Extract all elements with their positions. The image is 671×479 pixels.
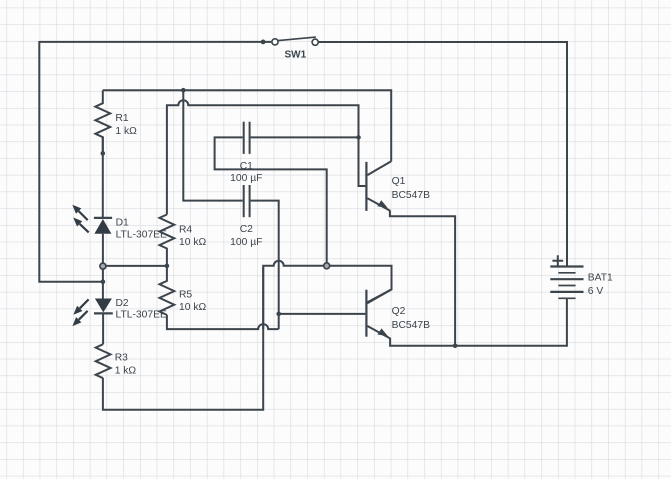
node Q2 base junction xyxy=(276,312,281,317)
svg-text:Q2: Q2 xyxy=(392,306,406,317)
svg-text:100 µF: 100 µF xyxy=(230,173,262,184)
svg-text:BAT1: BAT1 xyxy=(588,273,613,284)
svg-text:1 kΩ: 1 kΩ xyxy=(115,365,137,376)
svg-text:SW1: SW1 xyxy=(285,49,307,60)
svg-text:R1: R1 xyxy=(115,113,128,124)
svg-text:10 kΩ: 10 kΩ xyxy=(179,302,206,313)
wire R4 top with hop xyxy=(167,100,366,214)
wire C1 left lead loop xyxy=(215,137,327,264)
switch SW1 xyxy=(261,37,319,45)
resistor R4 xyxy=(160,215,175,266)
diode D1 LED xyxy=(72,205,112,234)
capacitor C1 xyxy=(244,122,250,154)
diode D2 LED xyxy=(72,299,112,327)
svg-text:D1: D1 xyxy=(116,218,129,229)
resistor R1 xyxy=(95,90,110,156)
node gray dot LED junction xyxy=(100,263,106,269)
wire R1 top horizontal to Q1 collector xyxy=(103,90,391,161)
svg-text:6 V: 6 V xyxy=(588,286,604,297)
node bottom rail junction xyxy=(453,344,458,349)
wire LED junction row xyxy=(103,265,167,267)
node R4 R5 junction xyxy=(165,264,170,269)
transistor Q2 xyxy=(366,289,391,338)
wire C2 right lead down Q2 base xyxy=(251,201,279,330)
svg-text:10 kΩ: 10 kΩ xyxy=(179,237,206,248)
wire LED chain vertical xyxy=(102,137,104,344)
node gray dot C1 bottom xyxy=(324,263,330,269)
svg-text:R4: R4 xyxy=(179,225,192,236)
svg-text:R5: R5 xyxy=(179,289,192,300)
battery BAT1 xyxy=(550,255,583,298)
svg-text:R3: R3 xyxy=(115,353,128,364)
capacitor C2 xyxy=(244,185,250,217)
node R1 top rail junction xyxy=(181,88,186,93)
svg-text:Q1: Q1 xyxy=(392,176,406,187)
wire top rail left xyxy=(39,41,271,43)
svg-text:C2: C2 xyxy=(240,224,253,235)
wire left rail down xyxy=(39,41,101,282)
svg-text:C1: C1 xyxy=(240,161,253,172)
node C1 right junction xyxy=(356,135,361,140)
node left rail join xyxy=(101,279,106,284)
svg-text:100 µF: 100 µF xyxy=(230,237,262,248)
resistor R3 xyxy=(96,344,111,378)
wire bottom rail xyxy=(390,298,567,346)
svg-text:BC547B: BC547B xyxy=(392,320,430,331)
wire right rail down to battery xyxy=(566,41,568,267)
wire C1 right lead to Q1 base node xyxy=(251,136,359,138)
svg-text:D2: D2 xyxy=(116,298,129,309)
wire R5 bottom lead with hop xyxy=(167,315,279,329)
wire top rail right xyxy=(318,41,567,43)
svg-text:BC547B: BC547B xyxy=(392,190,430,201)
resistor R5 xyxy=(160,266,175,315)
wire Q2 base xyxy=(279,313,366,315)
wire node row to Q2 collector with hop xyxy=(263,261,391,329)
svg-text:1 kΩ: 1 kΩ xyxy=(115,126,137,137)
transistor Q1 xyxy=(366,161,391,211)
wire vertical from node to C2 left xyxy=(183,90,242,200)
wire bottom left xyxy=(103,267,263,410)
wire Q1 emitter run xyxy=(390,210,455,345)
